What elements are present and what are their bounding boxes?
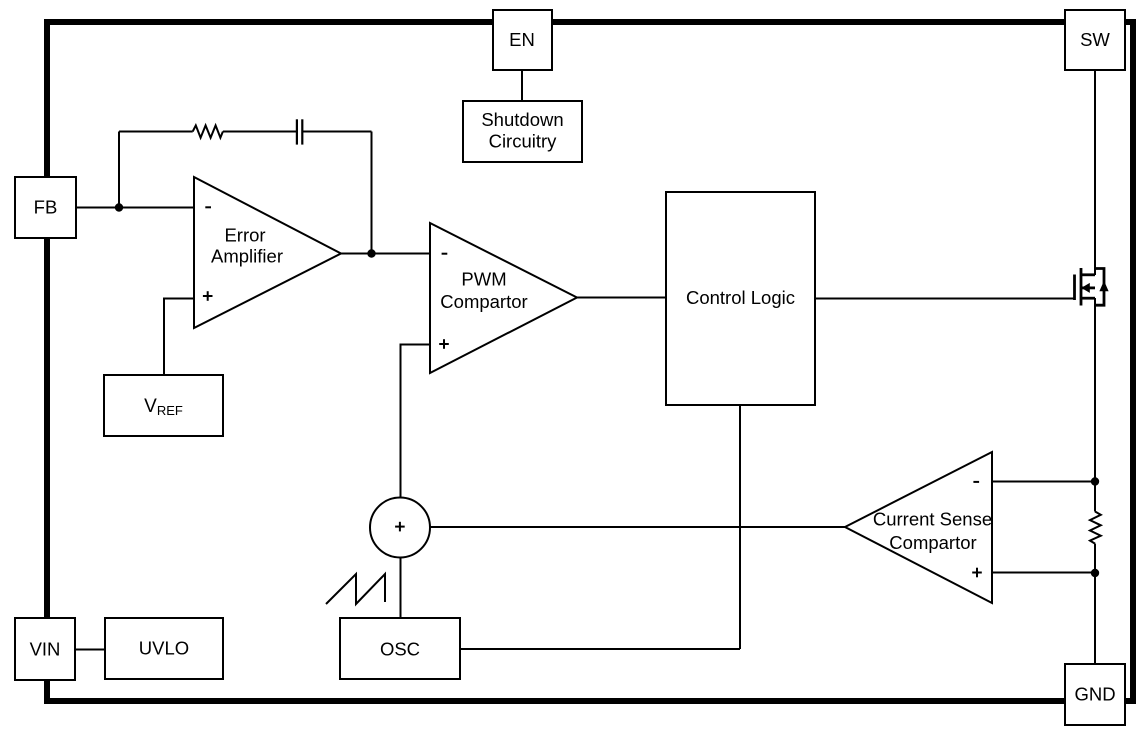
wire VIN pin to UVLO bbox=[75, 649, 105, 651]
wire current sense comparator output to summing node bbox=[430, 526, 845, 528]
node A junction dot at FB wire bbox=[115, 203, 123, 211]
comparator U3 Current Sense Compartor bbox=[845, 452, 992, 603]
wire MOSFET source down to sense resistor bbox=[1094, 298, 1096, 512]
svg-text:Circuitry: Circuitry bbox=[489, 131, 558, 152]
svg-text:Compartor: Compartor bbox=[889, 532, 976, 553]
wire feedback top left segment bbox=[119, 131, 193, 133]
pin box EN bbox=[493, 10, 552, 70]
block UVLO bbox=[105, 618, 223, 679]
wire control logic output to MOSFET gate bbox=[815, 298, 1075, 300]
svg-text:PWM: PWM bbox=[461, 269, 506, 290]
svg-text:Compartor: Compartor bbox=[440, 291, 527, 312]
svg-text:OSC: OSC bbox=[380, 639, 420, 660]
svg-text:GND: GND bbox=[1074, 684, 1115, 705]
comparator U2 PWM Compartor bbox=[430, 223, 577, 373]
summing node S1 bbox=[370, 498, 430, 558]
wire current sense comparator inverting input bbox=[992, 481, 1095, 483]
wire feedback right vertical down to error amp output bbox=[371, 132, 373, 254]
pin box SW bbox=[1065, 10, 1125, 70]
transistor Q1 power MOSFET bbox=[1075, 268, 1109, 306]
pin box VIN bbox=[15, 618, 75, 680]
svg-text:FB: FB bbox=[34, 197, 58, 218]
wire sense resistor down to GND pin bbox=[1094, 544, 1096, 664]
wire EN pin to shutdown circuitry bbox=[521, 70, 523, 101]
wire summing node to PWM comparator noninverting input bbox=[401, 345, 431, 498]
wire resistor to capacitor bbox=[223, 131, 297, 133]
svg-text:SW: SW bbox=[1080, 29, 1110, 50]
wire OSC output to control logic bbox=[460, 648, 740, 650]
pin box FB bbox=[15, 177, 76, 238]
svg-text:Control Logic: Control Logic bbox=[686, 287, 795, 308]
block Control Logic bbox=[666, 192, 815, 405]
resistor R2 current sense bbox=[1090, 512, 1101, 544]
wire OSC to summing node bbox=[400, 558, 402, 619]
wire current sense comparator noninverting input bbox=[992, 572, 1095, 574]
op-amp U1 Error Amplifier bbox=[194, 177, 341, 328]
svg-text:Amplifier: Amplifier bbox=[211, 245, 283, 266]
wire FB output to error amp inverting input bbox=[76, 207, 194, 209]
svg-text:Current Sense: Current Sense bbox=[873, 509, 992, 530]
svg-text:Error: Error bbox=[224, 224, 265, 245]
wire error amp output to PWM comparator inverting input bbox=[341, 253, 430, 255]
resistor R1 compensation bbox=[193, 125, 223, 137]
block Shutdown Circuitry bbox=[463, 101, 582, 162]
svg-text:UVLO: UVLO bbox=[139, 638, 189, 659]
wire control logic bottom vertical bbox=[739, 405, 741, 649]
wire PWM comparator output to control logic bbox=[577, 297, 666, 299]
sawtooth waveform symbol bbox=[326, 574, 385, 604]
block OSC bbox=[340, 618, 460, 679]
svg-text:Shutdown: Shutdown bbox=[481, 109, 563, 130]
svg-text:EN: EN bbox=[509, 29, 535, 50]
svg-text:VIN: VIN bbox=[30, 639, 61, 660]
node C junction dot above sense resistor bbox=[1091, 477, 1099, 485]
block VREF bbox=[104, 375, 223, 436]
wire SW pin down to MOSFET drain bbox=[1094, 70, 1096, 275]
wire VREF to error amp noninverting input bbox=[164, 299, 194, 376]
wire feedback network left vertical bbox=[118, 132, 120, 208]
wire capacitor to right vertical bbox=[302, 131, 371, 133]
node D junction dot below sense resistor bbox=[1091, 569, 1099, 577]
node B junction dot at error amp output bbox=[367, 249, 375, 257]
pin box GND bbox=[1065, 664, 1125, 725]
capacitor C1 compensation bbox=[297, 119, 302, 144]
